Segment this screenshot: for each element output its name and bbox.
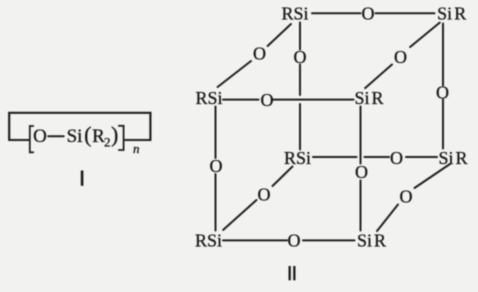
bond top-left depth diagonal lower: [218, 61, 251, 87]
bond back-right vertical lower: [442, 100, 444, 149]
svg-text:O: O: [288, 230, 301, 250]
label I: [81, 171, 84, 186]
svg-text:O: O: [362, 4, 375, 24]
bond front-right vertical lower: [360, 181, 362, 231]
svg-text:2: 2: [104, 134, 111, 149]
svg-text:RSi: RSi: [284, 148, 311, 168]
svg-text:O: O: [394, 47, 407, 67]
bond back-left vertical lower: [299, 104, 301, 150]
svg-text:Si: Si: [67, 126, 83, 147]
svg-text:SiR: SiR: [437, 4, 466, 24]
svg-text:RSi: RSi: [281, 4, 308, 24]
svg-text:O: O: [258, 184, 271, 204]
bracket [ of formula I: [30, 126, 33, 152]
svg-text:O: O: [210, 156, 223, 176]
bond back-top edge left half: [312, 12, 361, 14]
bond bottom-left depth diagonal upper: [273, 167, 293, 187]
bond front-top edge left half: [223, 99, 259, 101]
label II: [289, 266, 296, 280]
bracket ] of formula I: [119, 126, 124, 150]
bond front-left vertical upper: [215, 107, 217, 159]
bond bottom-left depth diagonal lower: [223, 200, 256, 230]
svg-text:SiR: SiR: [357, 231, 386, 251]
svg-text:O: O: [400, 186, 413, 206]
svg-text:RSi: RSi: [195, 88, 222, 108]
wire loop-right connector: [125, 139, 150, 141]
bond front-left vertical lower: [215, 174, 217, 231]
svg-text:O: O: [436, 83, 449, 103]
bond top-left depth diagonal upper: [268, 24, 291, 46]
bond top-right depth diagonal lower: [365, 65, 392, 89]
bond bottom-right depth diagonal upper: [415, 164, 451, 188]
svg-text:SiR: SiR: [438, 148, 467, 168]
polymer loop box (structure I): [9, 113, 150, 140]
svg-text:SiR: SiR: [354, 88, 383, 108]
bond back-bottom edge left half: [313, 156, 357, 158]
svg-text:(: (: [84, 122, 91, 147]
bond bottom-right depth diagonal lower: [377, 205, 398, 232]
svg-text:O: O: [390, 148, 403, 168]
bond O-Si in formula I: [48, 135, 63, 137]
bond front-right vertical upper: [360, 107, 362, 164]
bond back-bottom edge right half: [406, 156, 437, 158]
bond top-right depth diagonal upper: [410, 23, 440, 47]
svg-text:O: O: [261, 90, 274, 110]
svg-text:O: O: [253, 44, 266, 64]
bond back-left vertical upper: [299, 23, 301, 50]
bond back-top edge right half: [376, 12, 435, 14]
svg-text:O: O: [355, 162, 368, 182]
bond front-bottom edge left half: [223, 239, 287, 241]
wire loop-left connector: [9, 139, 28, 141]
bond back-bottom edge left half after crossing: [365, 156, 390, 158]
bond back-left vertical middle: [299, 65, 301, 96]
bond front-top edge right half: [273, 99, 354, 101]
svg-text:RSi: RSi: [195, 231, 222, 251]
bond back-right vertical upper: [442, 24, 444, 86]
svg-text:O: O: [33, 126, 47, 147]
svg-text:n: n: [133, 141, 140, 156]
svg-text:): ): [111, 122, 118, 147]
bond front-bottom edge right half: [303, 239, 355, 241]
svg-text:O: O: [294, 47, 307, 67]
